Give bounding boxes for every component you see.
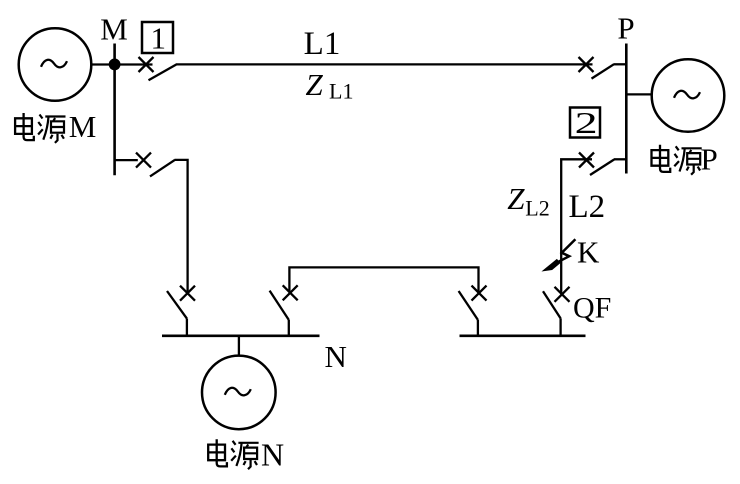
bridge wire between bus N sections	[289, 267, 478, 293]
AC source P	[652, 59, 725, 132]
svg-text:P: P	[617, 10, 634, 45]
label Z_L1	[306, 67, 354, 104]
wire bus M tap	[115, 159, 138, 161]
breaker B blade	[270, 291, 289, 320]
svg-text:Z: Z	[306, 67, 324, 102]
breaker C blade	[459, 291, 478, 320]
wire breaker A to bus N left	[186, 319, 188, 337]
svg-text:L1: L1	[329, 79, 353, 104]
breaker 2 label box	[570, 105, 600, 140]
svg-text:2: 2	[575, 105, 598, 140]
breaker 1 blade	[149, 64, 177, 80]
bus P	[625, 44, 628, 174]
label 电源N	[208, 437, 284, 473]
wire QF to bus N right	[559, 318, 561, 336]
svg-text:N: N	[261, 437, 284, 473]
label 电源M	[15, 109, 96, 144]
breaker QF cross	[555, 287, 570, 302]
wire source M to bus M	[91, 63, 152, 65]
breaker at P end of L1: cross	[579, 57, 594, 72]
wire blade corner down to breaker A	[175, 160, 188, 292]
breaker 2: wire bus P to blade	[614, 158, 626, 160]
breaker M-low blade	[150, 160, 175, 177]
breaker QF blade	[543, 291, 561, 318]
AC source N	[202, 356, 276, 430]
wire bus N to source N	[238, 336, 240, 356]
breaker C cross	[472, 286, 487, 301]
svg-text:QF: QF	[573, 292, 611, 325]
breaker A blade	[167, 291, 187, 319]
line L1 wire	[176, 63, 593, 65]
svg-text:P: P	[701, 141, 718, 176]
breaker 2 blade	[590, 159, 614, 175]
svg-text:M: M	[100, 11, 128, 46]
svg-text:K: K	[577, 235, 600, 270]
svg-text:M: M	[69, 109, 97, 144]
svg-text:L1: L1	[304, 26, 341, 62]
breaker at P end of L1: blade	[592, 64, 614, 78]
svg-text:L2: L2	[569, 189, 606, 225]
label Z_L2	[507, 181, 550, 221]
wire bus P to source P	[626, 93, 652, 95]
svg-text:N: N	[325, 339, 347, 374]
bus N left segment	[162, 334, 320, 337]
node M junction dot	[109, 59, 121, 71]
bus M	[113, 44, 116, 176]
svg-text:1: 1	[151, 20, 167, 55]
breaker 1 label box	[142, 20, 173, 55]
breaker M-low cross	[136, 153, 151, 168]
bus N right segment	[460, 334, 586, 337]
wire breaker C to bus N right	[477, 320, 479, 337]
fault K lightning arrow	[544, 239, 575, 270]
svg-text:L2: L2	[525, 195, 549, 220]
svg-text:Z: Z	[507, 181, 525, 216]
breaker 2 cross	[579, 153, 594, 168]
wire blade to bus P	[614, 63, 627, 65]
breaker A cross	[180, 286, 195, 301]
AC source M	[19, 28, 92, 101]
breaker 1 cross	[139, 57, 154, 72]
label 电源P	[652, 141, 718, 176]
wire breaker 2 to L2 corner down to QF	[561, 159, 592, 294]
wire breaker B to bus N left	[288, 320, 290, 337]
breaker B cross	[283, 285, 298, 300]
